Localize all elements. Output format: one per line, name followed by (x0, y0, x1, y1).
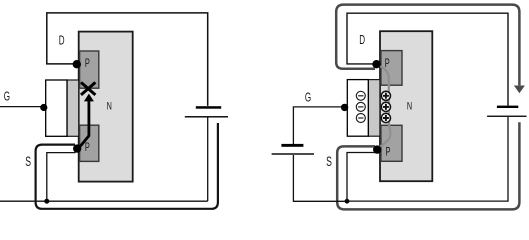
node S contact right (373, 145, 381, 153)
node junction J1 (44, 199, 49, 204)
svg-text:P: P (386, 146, 391, 159)
current direction arrowhead (514, 86, 525, 94)
hole circle H1 (381, 91, 390, 100)
wire thick source loop (36, 123, 218, 209)
node S contact left (73, 144, 81, 152)
svg-text:S: S (326, 154, 332, 170)
X blocked mark (81, 82, 95, 95)
svg-text:S: S (25, 154, 31, 170)
hole circle H3 (381, 113, 390, 122)
battery B2 bottom plate (487, 116, 526, 117)
wire drain inner right (347, 13, 508, 105)
svg-text:D: D (359, 33, 365, 47)
N substrate left (79, 32, 133, 182)
oxide layer left (67, 80, 79, 136)
P region lower left (80, 125, 99, 161)
wire battery to bottom right (347, 117, 508, 201)
svg-text:G: G (4, 90, 10, 104)
gate electrode left (46, 80, 67, 136)
wire gate right (293, 107, 341, 144)
N substrate right (380, 31, 432, 181)
wire source inner right (347, 153, 376, 202)
svg-text:P: P (385, 57, 390, 70)
P region upper left (80, 51, 99, 88)
wire battery bottom feed (207, 117, 209, 201)
wire source inner (47, 153, 76, 202)
wire thick current loop lower (337, 122, 519, 209)
electron circle E2 (356, 102, 365, 111)
wire drain loop left (47, 13, 208, 106)
node D contact left (73, 60, 81, 68)
battery B2 top plate (497, 106, 518, 108)
blocked current arrow (80, 94, 94, 147)
gate battery B3 top plate (281, 144, 303, 147)
svg-text:D: D (59, 34, 65, 48)
battery B1 top plate (196, 106, 221, 109)
svg-text:P: P (85, 141, 90, 154)
wire gate G (0, 106, 43, 108)
wire thick current loop upper (336, 5, 519, 86)
svg-text:N: N (107, 100, 112, 112)
wire bottom return (0, 200, 208, 202)
gate electrode right (347, 80, 368, 137)
oxide layer right (368, 80, 380, 137)
svg-text:N: N (407, 100, 412, 112)
gate battery B3 bottom plate (272, 153, 314, 154)
svg-text:G: G (305, 90, 311, 104)
node D contact right (372, 60, 380, 68)
electron circle E1 (356, 91, 365, 100)
electron circle E3 (356, 114, 365, 123)
node G contact right (341, 104, 348, 111)
hole circle H2 (381, 102, 390, 111)
P region lower right (381, 125, 402, 161)
wire gate battery to junction (293, 155, 347, 201)
hole current path gray (377, 65, 391, 150)
svg-text:P: P (85, 57, 90, 70)
node G contact left (40, 104, 47, 111)
P region upper right (381, 51, 402, 86)
battery B1 bottom plate (185, 116, 228, 117)
node junction J2 (345, 199, 350, 204)
